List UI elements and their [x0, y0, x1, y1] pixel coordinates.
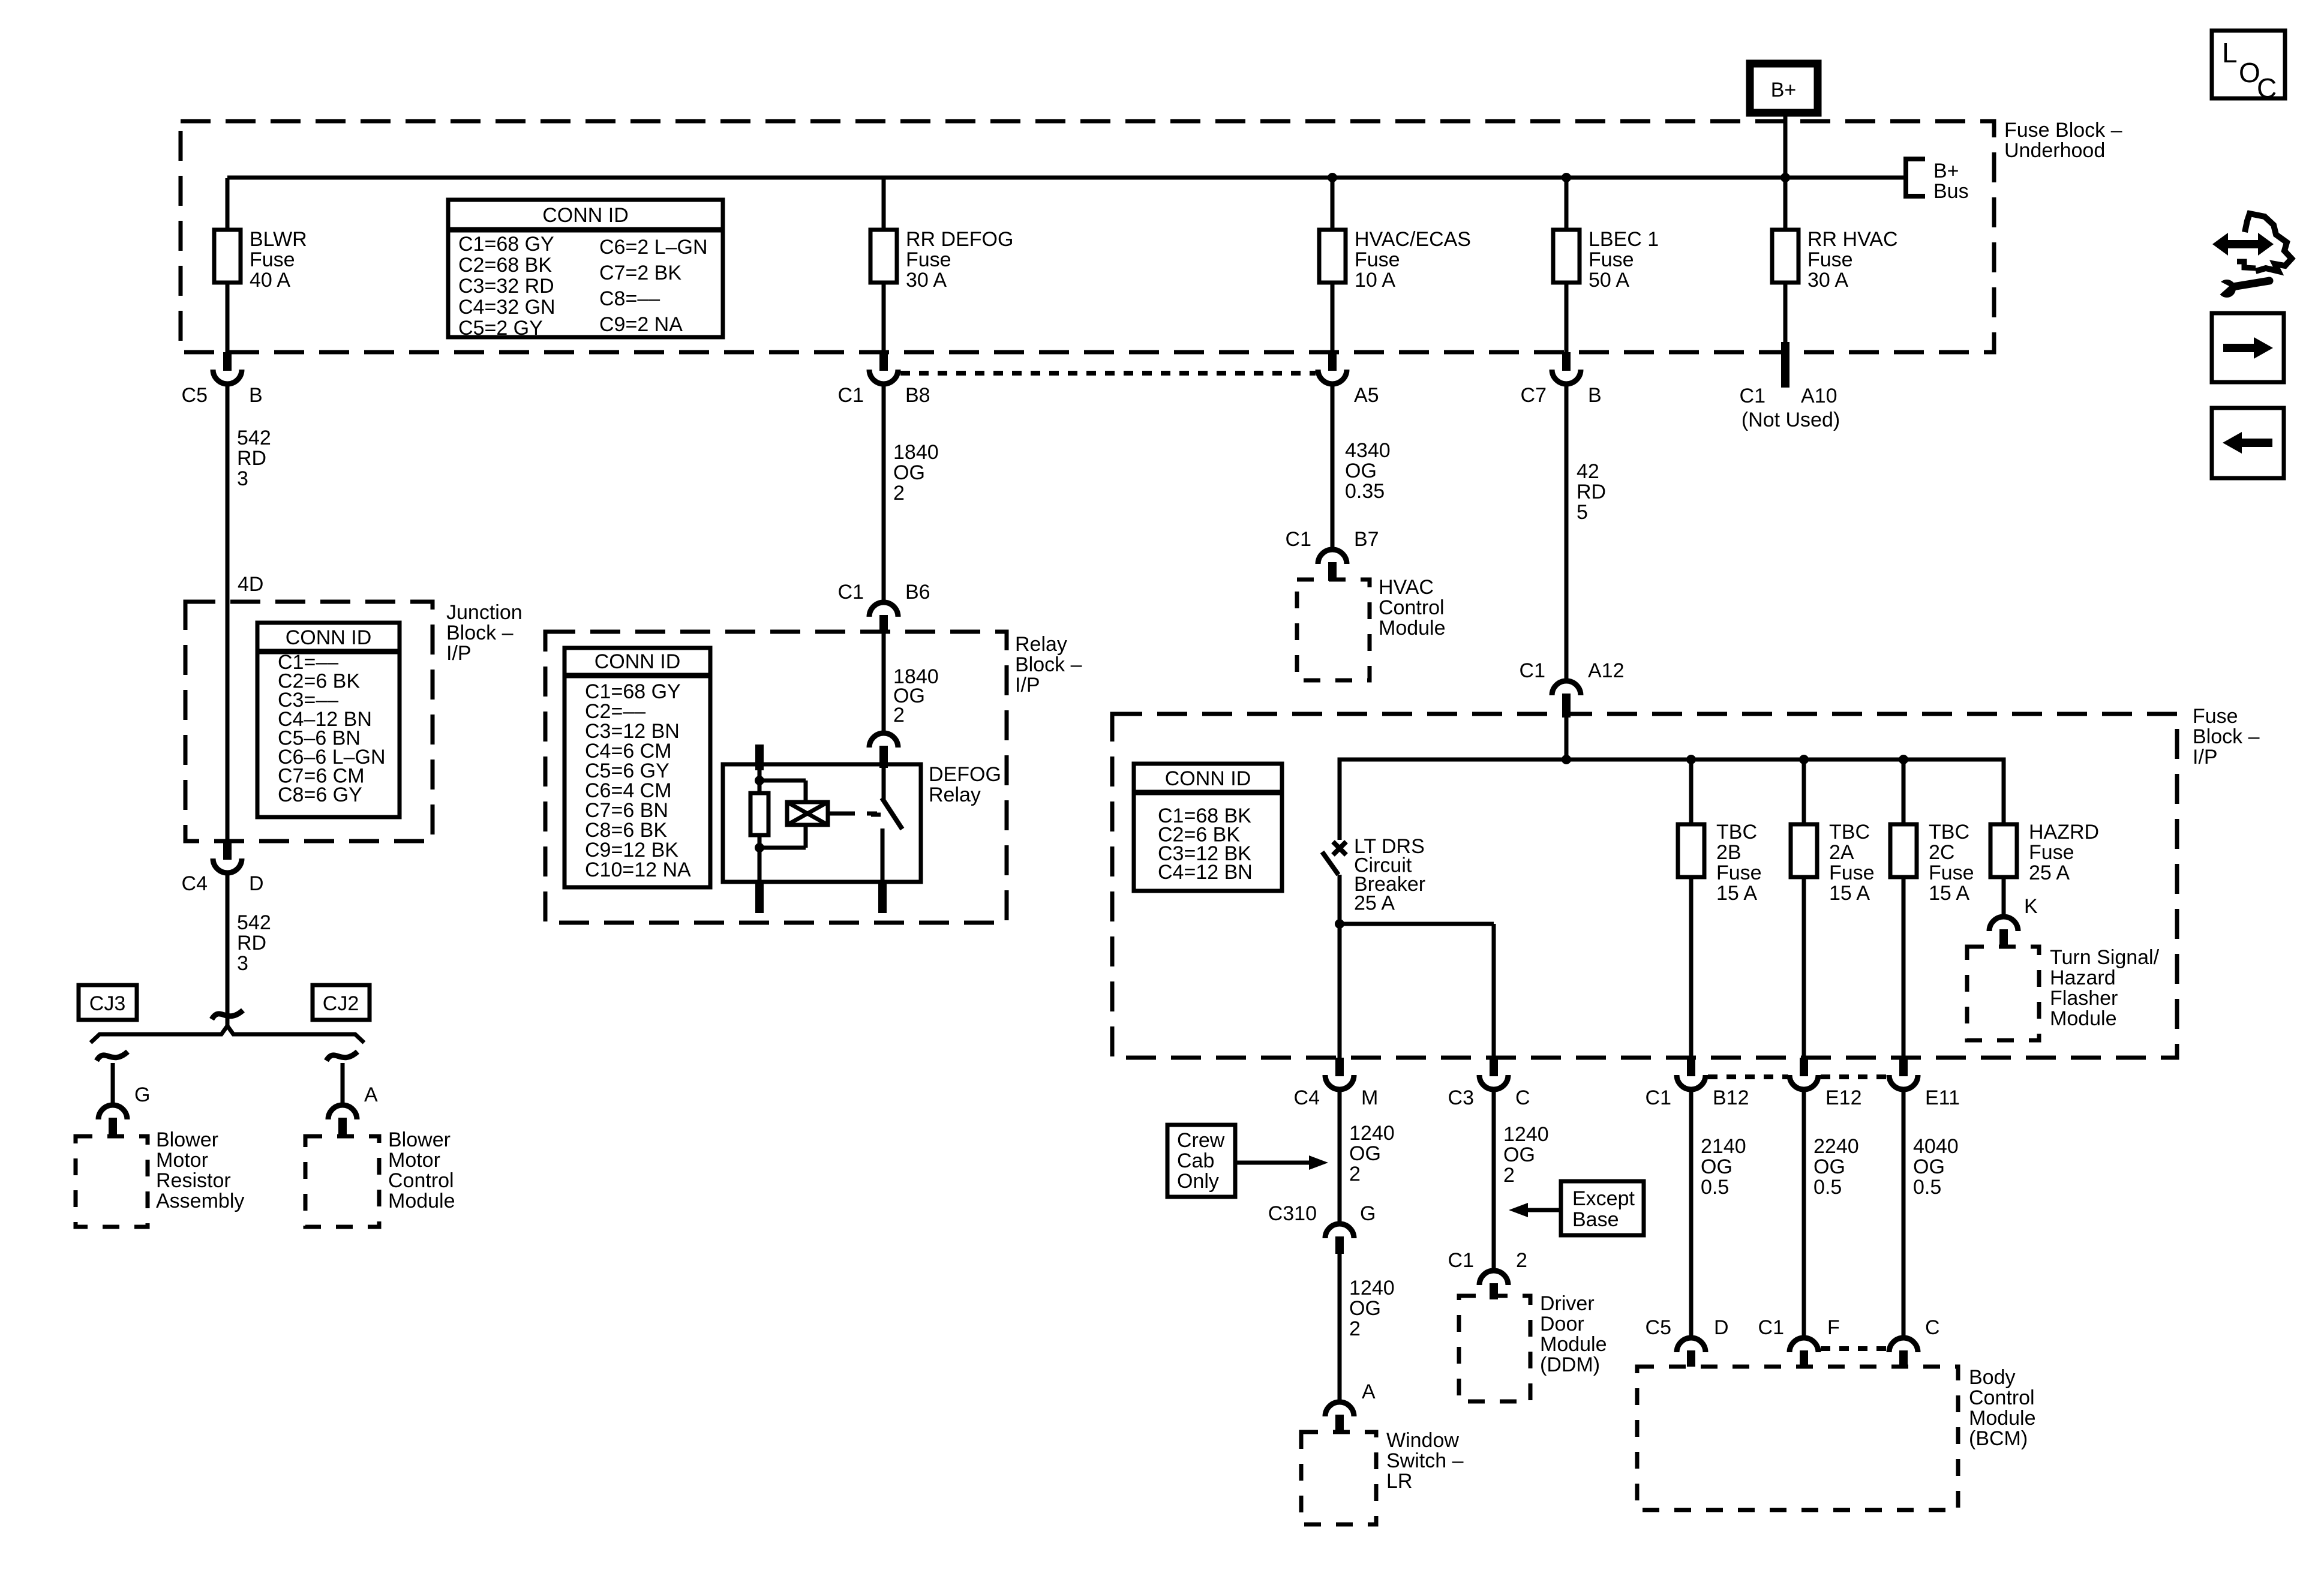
svg-text:Motor: Motor	[156, 1149, 208, 1172]
svg-text:Fuse: Fuse	[1929, 861, 1974, 884]
relay switch blade	[871, 798, 902, 829]
LT DRS circuit breaker blade	[1322, 852, 1338, 875]
svg-text:HVAC/ECAS: HVAC/ECAS	[1355, 228, 1471, 251]
label 1840 OG 2 (relay block)	[893, 665, 939, 727]
svg-text:Block –: Block –	[2193, 725, 2260, 748]
svg-text:50 A: 50 A	[1589, 269, 1629, 292]
svg-text:I/P: I/P	[2193, 746, 2218, 769]
svg-text:0.5: 0.5	[1913, 1176, 1941, 1199]
fuse TBC 2C 15A	[1890, 760, 1974, 1058]
label 1240 OG 2 (DDM)	[1503, 1123, 1549, 1187]
svg-text:CONN ID: CONN ID	[286, 626, 372, 649]
svg-text:Resistor: Resistor	[156, 1169, 231, 1192]
svg-text:C1: C1	[838, 384, 864, 407]
connector C1 pin B12 (BCM feed)	[1646, 1058, 1749, 1109]
wire C3C to DDM	[1492, 1090, 1496, 1268]
relay coil pin stub bottom	[755, 882, 764, 913]
wire B12 to BCM D	[1689, 1090, 1694, 1335]
svg-text:0.5: 0.5	[1813, 1176, 1842, 1199]
junction dot TBC2B	[1686, 755, 1696, 764]
svg-text:2A: 2A	[1829, 841, 1854, 864]
svg-text:Fuse: Fuse	[2193, 705, 2238, 728]
body control module BCM (dashed box)	[1637, 1367, 1958, 1510]
svg-text:D: D	[1714, 1316, 1729, 1339]
svg-text:CONN ID: CONN ID	[594, 650, 681, 673]
svg-text:C: C	[2257, 73, 2277, 104]
wire A12 to bus	[1565, 718, 1569, 760]
CONN ID table (junction block)	[257, 623, 400, 817]
svg-text:CONN ID: CONN ID	[1165, 767, 1251, 790]
svg-text:2: 2	[1503, 1164, 1515, 1187]
svg-text:RD: RD	[1577, 481, 1606, 503]
svg-text:E11: E11	[1925, 1086, 1960, 1109]
B+ power feed box	[1750, 64, 1818, 113]
junction dot A12	[1562, 755, 1571, 764]
svg-text:B+: B+	[1771, 79, 1797, 101]
label LT DRS Circuit Breaker 25 A	[1354, 835, 1425, 915]
label 542 RD 3 lower	[237, 911, 271, 975]
connector C310 pin G (inline)	[1268, 1202, 1376, 1254]
connector pin C (BCM)	[1889, 1316, 1940, 1367]
svg-text:A: A	[1362, 1380, 1376, 1403]
turn signal hazard flasher module (dashed box)	[1967, 947, 2039, 1040]
fuse HAZRD 25A	[1990, 760, 2099, 914]
dotted connector link B8-A5	[900, 371, 1316, 376]
svg-text:3: 3	[237, 952, 248, 975]
svg-text:C5=2 GY: C5=2 GY	[458, 317, 543, 340]
connector C1 pin A10 not used	[1740, 342, 1840, 431]
svg-text:C5: C5	[1646, 1316, 1671, 1339]
svg-text:Crew: Crew	[1177, 1129, 1225, 1152]
svg-text:K: K	[2024, 895, 2038, 918]
dotted connector link F-C	[1821, 1346, 1887, 1351]
svg-text:TBC: TBC	[1716, 821, 1757, 843]
svg-text:L: L	[2222, 37, 2238, 68]
svg-text:C1: C1	[1520, 659, 1545, 682]
svg-text:1240: 1240	[1349, 1122, 1395, 1145]
connector C4 pin D (junction block exit)	[182, 841, 264, 895]
fuse TBC 2A 15A	[1791, 760, 1875, 1058]
wire to blower motor control module	[341, 1063, 345, 1103]
wire 4340 OG 0.35 (A5 to B7)	[1331, 386, 1335, 547]
svg-text:Door: Door	[1540, 1313, 1584, 1335]
svg-text:B: B	[1588, 384, 1602, 407]
label DEFOG Relay	[929, 763, 1001, 806]
relay resistor	[750, 793, 768, 835]
wire break symbol (left branch)	[97, 1052, 128, 1061]
svg-text:Switch –: Switch –	[1386, 1449, 1464, 1472]
wire 542 RD 3 (C5 to junction block)	[226, 386, 230, 602]
svg-text:Window: Window	[1386, 1429, 1459, 1452]
svg-text:C1: C1	[1758, 1316, 1784, 1339]
svg-text:Fuse: Fuse	[250, 248, 295, 271]
connector C1 pin B6 (relay block)	[838, 581, 930, 634]
svg-text:F: F	[1827, 1316, 1840, 1339]
svg-text:RR HVAC: RR HVAC	[1807, 228, 1898, 251]
svg-text:25 A: 25 A	[2029, 861, 2070, 884]
label Turn Signal Hazard Flasher Module	[2050, 946, 2160, 1030]
svg-text:Control: Control	[1969, 1386, 2035, 1409]
label 2140 OG 0.5	[1701, 1135, 1746, 1199]
wire breaker to branch dot	[1335, 875, 1344, 1058]
connector C1 pin A12 (fuse block I/P)	[1520, 659, 1625, 718]
connector C5 pin D (BCM)	[1646, 1316, 1729, 1367]
svg-text:RD: RD	[237, 447, 266, 470]
relay coil actuator arm	[828, 812, 839, 816]
svg-text:Body: Body	[1969, 1366, 2016, 1389]
label Window Switch - LR	[1386, 1429, 1464, 1493]
CONN ID table (fuse block I/P)	[1134, 764, 1282, 891]
svg-text:A: A	[364, 1083, 378, 1106]
CONN ID table (relay block)	[565, 648, 710, 887]
except base arrow	[1509, 1203, 1561, 1217]
svg-text:A5: A5	[1354, 384, 1379, 407]
connector C3 pin C (DDM feed)	[1448, 1058, 1530, 1109]
label Fuse Block - I/P	[2193, 705, 2260, 769]
svg-text:30 A: 30 A	[906, 269, 947, 292]
label 1240 OG 2 (lower)	[1349, 1277, 1395, 1340]
svg-text:Blower: Blower	[388, 1128, 451, 1151]
svg-text:C8=––: C8=––	[599, 287, 660, 310]
svg-text:G: G	[1360, 1202, 1376, 1225]
svg-text:B7: B7	[1354, 528, 1379, 551]
svg-text:OG: OG	[1913, 1155, 1945, 1178]
svg-text:DEFOG: DEFOG	[929, 763, 1001, 786]
relay actuator dashed link	[839, 812, 877, 816]
svg-text:4040: 4040	[1913, 1135, 1959, 1158]
svg-text:C2=68 BK: C2=68 BK	[458, 254, 552, 277]
svg-text:25 A: 25 A	[1354, 892, 1395, 915]
fuse BLWR 40A	[214, 178, 307, 352]
svg-text:CJ3: CJ3	[89, 992, 125, 1015]
svg-text:C1: C1	[1740, 385, 1765, 407]
svg-text:OG: OG	[1813, 1155, 1845, 1178]
label 542 RD 3 upper	[237, 427, 271, 490]
svg-text:C: C	[1515, 1086, 1530, 1109]
svg-text:Cab: Cab	[1177, 1149, 1214, 1172]
svg-text:Blower: Blower	[156, 1128, 218, 1151]
relay switch output wire	[881, 828, 885, 882]
svg-text:40 A: 40 A	[250, 269, 290, 292]
label 1240 OG 2 (upper)	[1349, 1122, 1395, 1185]
svg-text:C4: C4	[1294, 1086, 1320, 1109]
svg-text:Fuse: Fuse	[1589, 248, 1634, 271]
svg-text:C4: C4	[182, 872, 208, 895]
svg-text:BLWR: BLWR	[250, 228, 307, 251]
svg-text:Block –: Block –	[1015, 653, 1082, 676]
wire E12 to BCM F	[1802, 1090, 1806, 1335]
label 4340 OG 0.35	[1345, 439, 1391, 503]
svg-text:D: D	[249, 872, 264, 895]
svg-text:OG: OG	[1345, 460, 1377, 482]
svg-text:2C: 2C	[1929, 841, 1954, 864]
except base callout box	[1561, 1181, 1644, 1235]
svg-text:4D: 4D	[238, 573, 263, 596]
B+ Bus bracket terminal	[1906, 159, 1969, 203]
svg-text:1240: 1240	[1349, 1277, 1395, 1299]
wire break symbol (right branch)	[326, 1052, 358, 1061]
svg-text:Fuse: Fuse	[1355, 248, 1400, 271]
connector pin E11 (BCM feed)	[1889, 1058, 1960, 1109]
svg-text:15 A: 15 A	[1829, 882, 1870, 905]
svg-text:Module: Module	[388, 1190, 455, 1212]
svg-text:Fuse: Fuse	[1829, 861, 1875, 884]
svg-text:C1=68 GY: C1=68 GY	[458, 233, 554, 256]
svg-text:LR: LR	[1386, 1470, 1412, 1493]
connector pin K (flasher module)	[1989, 895, 2038, 947]
label Junction Block - I/P	[446, 601, 523, 665]
svg-text:42: 42	[1577, 460, 1599, 483]
svg-text:B+: B+	[1933, 160, 1959, 182]
relay block I/P (dashed boundary)	[545, 632, 1007, 923]
svg-text:C4=12 BN: C4=12 BN	[1158, 861, 1253, 884]
svg-text:Fuse: Fuse	[1807, 248, 1853, 271]
svg-text:LBEC 1: LBEC 1	[1589, 228, 1659, 251]
label Fuse Block - Underhood	[2004, 119, 2122, 162]
svg-text:C1: C1	[1448, 1249, 1474, 1272]
connector C1 pin B7 (HVAC control module)	[1286, 528, 1379, 581]
svg-text:OG: OG	[1349, 1142, 1381, 1165]
connector pin A (window switch)	[1325, 1380, 1376, 1432]
svg-text:Only: Only	[1177, 1170, 1219, 1193]
svg-text:1240: 1240	[1503, 1123, 1549, 1146]
svg-text:OG: OG	[1701, 1155, 1733, 1178]
svg-text:Flasher: Flasher	[2050, 987, 2118, 1010]
svg-text:Relay: Relay	[1015, 633, 1067, 656]
svg-text:Module: Module	[1379, 617, 1446, 640]
fuse block I/P bus	[1340, 760, 2004, 840]
svg-text:TBC: TBC	[1829, 821, 1870, 843]
part locator icon (wrench)	[2210, 277, 2274, 298]
svg-text:OG: OG	[1503, 1143, 1535, 1166]
svg-text:C6=2 L–GN: C6=2 L–GN	[599, 236, 708, 259]
svg-text:RD: RD	[237, 932, 266, 954]
svg-text:CJ2: CJ2	[323, 992, 359, 1015]
CJ2 splice label box	[313, 985, 370, 1020]
svg-text:A10: A10	[1801, 385, 1837, 407]
svg-text:RR DEFOG: RR DEFOG	[906, 228, 1013, 251]
part locator icon (double arrow)	[2212, 233, 2274, 256]
svg-text:(DDM): (DDM)	[1540, 1353, 1600, 1376]
svg-text:G: G	[134, 1083, 150, 1106]
svg-text:30 A: 30 A	[1807, 269, 1848, 292]
svg-text:C: C	[1925, 1316, 1940, 1339]
svg-text:I/P: I/P	[446, 642, 472, 665]
svg-text:TBC: TBC	[1929, 821, 1969, 843]
svg-text:Fuse: Fuse	[1716, 861, 1762, 884]
svg-text:1840: 1840	[893, 441, 939, 464]
svg-text:Control: Control	[388, 1169, 454, 1192]
connector C7 pin B (LBEC1 exit)	[1521, 352, 1602, 407]
svg-text:OG: OG	[1349, 1297, 1381, 1320]
svg-text:B12: B12	[1713, 1086, 1749, 1109]
crew cab only callout box	[1167, 1125, 1235, 1197]
CONN ID table (underhood fuse block)	[448, 200, 723, 340]
wire to blower motor resistor	[111, 1063, 115, 1103]
svg-text:HVAC: HVAC	[1379, 576, 1434, 599]
relay coil branch wire	[759, 781, 806, 802]
label Body Control Module (BCM)	[1969, 1366, 2036, 1450]
svg-text:2: 2	[1349, 1163, 1361, 1185]
svg-text:Assembly: Assembly	[156, 1190, 244, 1212]
LT DRS circuit breaker contact X	[1333, 842, 1346, 855]
label 42 RD 5	[1577, 460, 1606, 524]
connector pin E12 (BCM feed)	[1789, 1058, 1862, 1109]
svg-text:C4=32 GN: C4=32 GN	[458, 296, 556, 319]
svg-text:C310: C310	[1268, 1202, 1317, 1225]
blower motor control module (dashed box)	[305, 1136, 379, 1227]
connector C4 pin M (crew cab feed)	[1294, 1058, 1379, 1109]
label Blower Motor Resistor Assembly	[156, 1128, 244, 1212]
connector C1 pin F (BCM)	[1758, 1316, 1840, 1367]
wire branch to C3	[1340, 924, 1494, 1058]
wire C310 to window switch	[1338, 1254, 1342, 1400]
wire through junction block	[226, 602, 230, 841]
svg-text:(BCM): (BCM)	[1969, 1427, 2028, 1450]
blower motor resistor assembly (dashed box)	[76, 1136, 148, 1227]
svg-text:3: 3	[237, 467, 248, 490]
svg-text:I/P: I/P	[1015, 674, 1040, 697]
wire 542 RD 3 lower	[226, 875, 230, 1025]
svg-text:Motor: Motor	[388, 1149, 440, 1172]
relay switch common wire	[882, 768, 886, 800]
HVAC control module (dashed box)	[1297, 580, 1370, 680]
svg-text:E12: E12	[1825, 1086, 1862, 1109]
svg-text:Fuse: Fuse	[2029, 841, 2074, 864]
connector C1 pin B8 (RR DEFOG exit)	[838, 352, 930, 407]
DEFOG relay body	[723, 764, 921, 882]
svg-text:2140: 2140	[1701, 1135, 1746, 1158]
relay resistor bottom wire + junction	[755, 835, 764, 882]
connector C5 pin B (BLWR exit)	[182, 352, 263, 407]
CJ3 splice label box	[79, 985, 137, 1020]
svg-text:CONN ID: CONN ID	[542, 204, 629, 227]
svg-text:15 A: 15 A	[1929, 882, 1969, 905]
svg-text:15 A: 15 A	[1716, 882, 1757, 905]
svg-text:2: 2	[1349, 1317, 1361, 1340]
relay switch pin stub bottom	[878, 882, 887, 913]
svg-text:C7=2 BK: C7=2 BK	[599, 262, 681, 284]
svg-text:M: M	[1361, 1086, 1378, 1109]
fuse block I/P (dashed boundary)	[1112, 714, 2177, 1058]
svg-text:4340: 4340	[1345, 439, 1391, 462]
svg-text:0.35: 0.35	[1345, 480, 1385, 503]
fuse block underhood (dashed boundary)	[181, 121, 1994, 352]
svg-text:Relay: Relay	[929, 784, 981, 806]
relay coil bottom wire	[759, 825, 806, 848]
svg-text:C9=2 NA: C9=2 NA	[599, 313, 683, 336]
svg-text:C8=6 GY: C8=6 GY	[278, 784, 362, 806]
svg-text:Block –: Block –	[446, 622, 514, 644]
junction dot TBC2C	[1899, 755, 1908, 764]
svg-text:C10=12 NA: C10=12 NA	[585, 858, 691, 881]
wire B+ to bus	[1783, 113, 1788, 178]
svg-text:2240: 2240	[1813, 1135, 1859, 1158]
B+ bus horizontal wire	[227, 176, 1906, 180]
junction dot LBEC1 branch	[1562, 173, 1571, 182]
svg-text:Except: Except	[1572, 1187, 1635, 1210]
svg-text:Module: Module	[1540, 1333, 1607, 1356]
svg-text:Base: Base	[1572, 1208, 1619, 1231]
junction dot HVAC/ECAS branch	[1328, 173, 1337, 182]
back arrow icon box	[2212, 408, 2284, 478]
relay coil wire + junction	[755, 770, 764, 793]
wire 1840 OG 2 (B8 to B6)	[882, 386, 886, 600]
svg-text:Driver: Driver	[1540, 1292, 1595, 1315]
relay coil pin stub top	[755, 745, 764, 770]
svg-text:Module: Module	[1969, 1407, 2036, 1430]
svg-text:B8: B8	[905, 384, 930, 407]
fuse HVAC/ECAS 10A	[1319, 178, 1471, 352]
wire C4M to C310	[1338, 1090, 1342, 1221]
LOC icon box	[2212, 31, 2285, 104]
svg-text:HAZRD: HAZRD	[2029, 821, 2099, 843]
part locator icon (part outline)	[2237, 214, 2292, 271]
svg-text:Control: Control	[1379, 596, 1445, 619]
svg-text:B6: B6	[905, 581, 930, 604]
svg-text:C1: C1	[1646, 1086, 1671, 1109]
svg-text:0.5: 0.5	[1701, 1176, 1729, 1199]
label 4D	[238, 573, 263, 596]
svg-text:2B: 2B	[1716, 841, 1742, 864]
junction dot TBC2A	[1799, 755, 1809, 764]
svg-text:A12: A12	[1588, 659, 1625, 682]
dotted connector link B12-E12-E11	[1708, 1074, 1888, 1079]
label HVAC Control Module	[1379, 576, 1446, 640]
forward arrow icon box	[2212, 313, 2284, 382]
driver door module DDM (dashed box)	[1459, 1296, 1530, 1401]
svg-text:Module: Module	[2050, 1007, 2117, 1030]
label Driver Door Module (DDM)	[1540, 1292, 1607, 1376]
label 1840 OG 2 upper	[893, 441, 939, 505]
fuse LBEC 1 50A	[1553, 178, 1659, 352]
connector C1 pin 2 (DDM)	[1448, 1249, 1527, 1299]
svg-text:5: 5	[1577, 501, 1588, 524]
junction dot B+ feed	[1780, 173, 1790, 182]
svg-text:10 A: 10 A	[1355, 269, 1395, 292]
svg-text:C3: C3	[1448, 1086, 1474, 1109]
svg-text:B: B	[249, 384, 263, 407]
wire E11 to BCM C	[1902, 1090, 1906, 1335]
crew cab arrow	[1235, 1155, 1328, 1170]
svg-text:Bus: Bus	[1933, 180, 1969, 203]
svg-text:OG: OG	[893, 461, 925, 484]
splice brace CJ	[91, 1026, 364, 1043]
svg-text:Turn Signal/: Turn Signal/	[2050, 946, 2160, 969]
junction block I/P (dashed boundary)	[185, 602, 433, 841]
wire 42 RD 5 (C7B to A12)	[1565, 386, 1569, 679]
wire B6 to relay	[882, 634, 886, 731]
svg-text:C7: C7	[1521, 384, 1547, 407]
wire break symbol (main)	[212, 1010, 243, 1019]
svg-text:Fuse: Fuse	[906, 248, 951, 271]
connector pin G (blower resistor)	[98, 1083, 150, 1136]
label Relay Block - I/P	[1015, 633, 1082, 697]
svg-text:2: 2	[1516, 1249, 1527, 1272]
label Blower Motor Control Module	[388, 1128, 455, 1212]
svg-text:Hazard: Hazard	[2050, 966, 2116, 989]
svg-text:Junction: Junction	[446, 601, 523, 624]
svg-text:2: 2	[893, 704, 905, 727]
relay socket connector (switch pin)	[869, 733, 898, 768]
svg-text:(Not Used): (Not Used)	[1742, 409, 1840, 431]
label 2240 OG 0.5	[1813, 1135, 1859, 1199]
relay coil (X box)	[787, 802, 828, 825]
fuse RR DEFOG 30A	[870, 178, 1013, 352]
svg-text:542: 542	[237, 427, 271, 449]
connector pin A5 (HVAC/ECAS exit)	[1318, 352, 1379, 407]
svg-text:C1: C1	[838, 581, 864, 604]
